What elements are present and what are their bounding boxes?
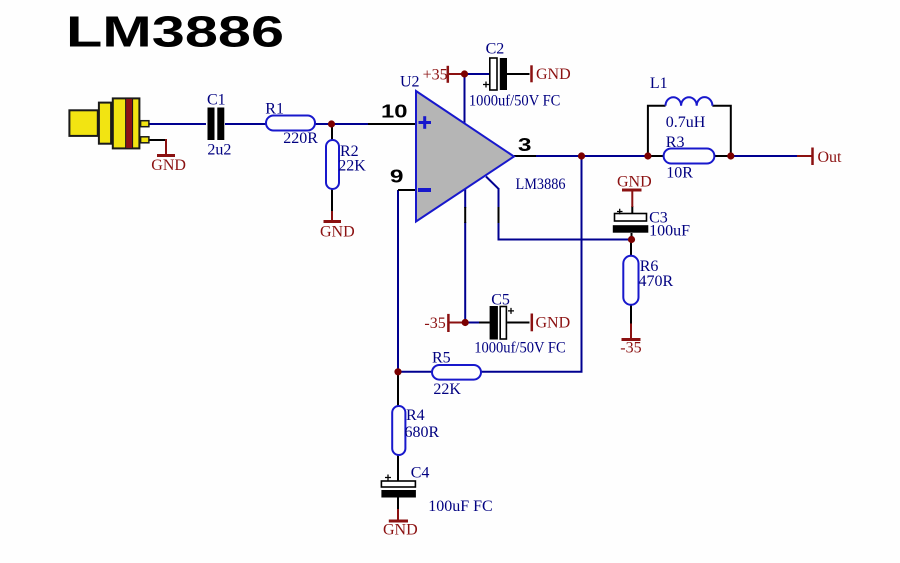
svg-text:9: 9	[390, 166, 404, 186]
svg-text:1000uf/50V FC: 1000uf/50V FC	[474, 340, 566, 357]
svg-text:220R: 220R	[283, 130, 318, 147]
svg-text:22K: 22K	[338, 158, 366, 175]
svg-text:LM3886: LM3886	[66, 8, 284, 57]
svg-text:100uF: 100uF	[649, 223, 690, 240]
svg-text:2u2: 2u2	[207, 142, 231, 159]
svg-text:-35: -35	[620, 339, 641, 356]
svg-text:3: 3	[518, 135, 532, 155]
svg-text:R3: R3	[666, 134, 685, 151]
svg-text:C5: C5	[491, 292, 510, 309]
svg-text:GND: GND	[320, 224, 355, 241]
svg-text:GND: GND	[536, 66, 571, 83]
svg-text:R4: R4	[406, 407, 425, 424]
svg-text:U2: U2	[400, 74, 420, 91]
svg-text:470R: 470R	[639, 273, 674, 290]
svg-text:0.7uH: 0.7uH	[666, 114, 706, 131]
svg-text:C4: C4	[411, 465, 430, 482]
svg-text:C2: C2	[486, 40, 505, 57]
svg-text:1000uf/50V FC: 1000uf/50V FC	[469, 93, 561, 110]
svg-text:LM3886: LM3886	[516, 176, 566, 193]
svg-text:R5: R5	[432, 350, 451, 367]
svg-text:10: 10	[381, 101, 408, 121]
svg-text:L1: L1	[650, 75, 668, 92]
svg-text:680R: 680R	[405, 424, 440, 441]
svg-text:R1: R1	[265, 100, 284, 117]
svg-text:GND: GND	[617, 174, 652, 191]
svg-text:Out: Out	[818, 149, 843, 166]
svg-text:GND: GND	[151, 157, 186, 174]
svg-text:22K: 22K	[433, 381, 461, 398]
svg-text:GND: GND	[383, 522, 418, 539]
svg-text:100uF FC: 100uF FC	[428, 498, 492, 515]
svg-text:10R: 10R	[666, 165, 693, 182]
svg-text:GND: GND	[536, 315, 571, 332]
svg-text:+35: +35	[423, 67, 448, 84]
svg-text:-35: -35	[424, 315, 445, 332]
svg-text:C1: C1	[207, 92, 226, 109]
